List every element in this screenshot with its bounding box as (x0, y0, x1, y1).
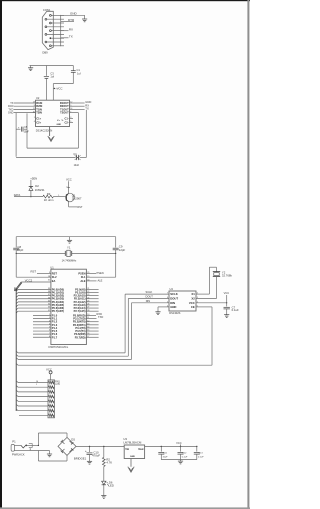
svg-text:P0.7(AD7): P0.7(AD7) (52, 309, 64, 313)
svg-text:4: 4 (34, 121, 35, 123)
svg-text:LM78L05ACM: LM78L05ACM (123, 440, 142, 444)
svg-text:C1+: C1+ (36, 117, 41, 121)
svg-text:0.1uF: 0.1uF (232, 308, 239, 312)
svg-text:470uF: 470uF (92, 454, 100, 458)
svg-text:ALE: ALE (98, 279, 103, 283)
svg-text:XL1: XL1 (81, 275, 86, 279)
svg-text:P1.7: P1.7 (52, 335, 58, 339)
svg-text:29: 29 (87, 272, 89, 274)
svg-text:26: 26 (87, 304, 89, 306)
svg-text:5: 5 (49, 327, 50, 329)
svg-text:EA: EA (52, 279, 56, 283)
svg-text:VCC: VCC (176, 441, 182, 445)
svg-text:0.1uF: 0.1uF (198, 456, 204, 458)
svg-text:GND: GND (70, 12, 78, 16)
svg-text:P3.7(RD): P3.7(RD) (75, 335, 86, 339)
svg-text:4.7K: 4.7K (55, 383, 60, 386)
svg-text:22: 22 (87, 291, 89, 293)
svg-text:U2: U2 (36, 96, 40, 100)
svg-text:GND: GND (130, 456, 135, 458)
svg-text:1: 1 (36, 384, 37, 386)
svg-text:RST: RST (77, 205, 83, 209)
svg-text:PWRJACK: PWRJACK (12, 453, 25, 457)
svg-text:PSEN: PSEN (97, 271, 104, 275)
svg-text:RST: RST (52, 272, 58, 276)
svg-text:32: 32 (48, 310, 50, 312)
svg-text:XL2: XL2 (52, 275, 57, 279)
svg-text:8: 8 (34, 105, 35, 107)
svg-text:16: 16 (87, 333, 89, 335)
svg-text:34: 34 (48, 304, 50, 306)
svg-text:CE: CE (191, 305, 195, 309)
svg-text:TX: TX (69, 35, 73, 39)
svg-text:V-: V- (62, 120, 64, 122)
svg-text:T2OUT: T2OUT (60, 111, 69, 115)
svg-text:2N2907: 2N2907 (72, 196, 82, 200)
svg-text:10: 10 (87, 314, 89, 316)
svg-text:DS1302S: DS1302S (169, 311, 180, 315)
svg-text:1: 1 (34, 117, 35, 119)
svg-text:12pF: 12pF (17, 248, 24, 252)
svg-text:11: 11 (87, 317, 89, 319)
svg-text:1: 1 (49, 314, 50, 316)
svg-text:7: 7 (49, 333, 50, 335)
svg-text:P2.7(A15): P2.7(A15) (74, 309, 86, 313)
svg-text:10uF: 10uF (24, 132, 30, 134)
svg-text:1uf: 1uf (77, 71, 81, 75)
svg-text:0.1uF: 0.1uF (182, 456, 188, 458)
svg-text:35: 35 (48, 300, 50, 302)
svg-text:P1: P1 (12, 439, 16, 443)
svg-text:RX: RX (69, 27, 73, 31)
svg-text:1uf: 1uf (50, 75, 54, 79)
svg-text:SCLK: SCLK (146, 290, 153, 294)
svg-text:+5EN: +5EN (30, 176, 37, 180)
svg-text:DB9: DB9 (42, 51, 48, 55)
svg-text:21: 21 (87, 288, 89, 290)
svg-text:SCLK: SCLK (170, 292, 178, 296)
svg-text:VCC: VCC (66, 178, 72, 182)
svg-text:DOUT: DOUT (146, 295, 154, 299)
svg-text:39: 39 (48, 288, 50, 290)
svg-text:16: 16 (36, 381, 38, 383)
svg-text:D5: D5 (71, 437, 75, 441)
svg-text:Vout: Vout (138, 448, 144, 451)
svg-text:GND: GND (57, 124, 62, 126)
svg-text:15: 15 (87, 330, 89, 332)
svg-text:13: 13 (87, 323, 89, 325)
svg-text:C2+: C2+ (36, 121, 41, 125)
svg-text:13: 13 (33, 102, 35, 104)
svg-text:LED: LED (109, 483, 114, 487)
svg-text:28: 28 (87, 310, 89, 312)
svg-text:X1: X1 (191, 292, 195, 296)
svg-text:DATA: DATA (14, 193, 21, 197)
svg-text:33: 33 (48, 307, 50, 309)
svg-text:6: 6 (49, 330, 50, 332)
svg-text:27: 27 (87, 307, 89, 309)
svg-text:2: 2 (49, 317, 50, 319)
svg-text:1K ohm: 1K ohm (44, 198, 54, 202)
svg-text:C2-: C2- (65, 121, 69, 125)
svg-text:10uF: 10uF (74, 164, 80, 167)
svg-text:12: 12 (87, 320, 89, 322)
svg-text:24: 24 (87, 297, 89, 299)
svg-text:19: 19 (87, 276, 89, 278)
svg-text:4.7K: 4.7K (106, 461, 112, 465)
svg-text:14.7456MHz: 14.7456MHz (62, 258, 77, 262)
svg-text:VCC: VCC (224, 291, 230, 295)
svg-text:RST: RST (31, 269, 37, 273)
svg-text:DS87C520-MCL: DS87C520-MCL (49, 345, 69, 349)
svg-text:23: 23 (87, 294, 89, 296)
svg-text:37: 37 (48, 294, 50, 296)
svg-text:R3: R3 (47, 192, 51, 196)
svg-text:4: 4 (49, 323, 50, 325)
svg-text:10uF: 10uF (163, 456, 169, 458)
svg-text:9: 9 (49, 272, 50, 274)
svg-text:GND: GND (170, 305, 176, 309)
svg-text:14: 14 (87, 327, 89, 329)
svg-text:DTR: DTR (68, 18, 75, 22)
svg-text:U1: U1 (50, 266, 54, 270)
svg-text:U4: U4 (170, 287, 174, 291)
svg-text:Vin: Vin (125, 448, 129, 451)
svg-text:31: 31 (48, 280, 50, 282)
svg-text:+VCC: +VCC (55, 86, 62, 90)
svg-text:C1-: C1- (65, 117, 69, 121)
svg-text:10: 10 (33, 111, 35, 113)
svg-text:BRIDGE1: BRIDGE1 (74, 456, 87, 460)
svg-text:30: 30 (87, 280, 89, 282)
svg-text:VCC2: VCC2 (25, 279, 33, 283)
svg-text:1N5231: 1N5231 (35, 188, 45, 192)
svg-text:TX: TX (85, 107, 89, 111)
svg-text:18: 18 (48, 276, 50, 278)
svg-text:3: 3 (49, 320, 50, 322)
svg-text:38: 38 (48, 291, 50, 293)
svg-text:ALE: ALE (80, 279, 85, 283)
svg-text:GND: GND (8, 112, 14, 115)
svg-text:T2IN: T2IN (36, 111, 42, 115)
svg-text:8: 8 (49, 336, 50, 338)
svg-text:DIN: DIN (146, 299, 151, 303)
svg-text:Y1: Y1 (67, 246, 71, 250)
svg-text:36: 36 (48, 297, 50, 299)
svg-text:17: 17 (87, 336, 89, 338)
svg-text:PSEN: PSEN (78, 272, 85, 276)
svg-text:32.768k: 32.768k (222, 274, 233, 278)
svg-text:12pF: 12pF (119, 248, 126, 252)
svg-text:TXD: TXD (98, 315, 103, 319)
svg-text:11: 11 (33, 108, 35, 110)
svg-text:25: 25 (87, 300, 89, 302)
